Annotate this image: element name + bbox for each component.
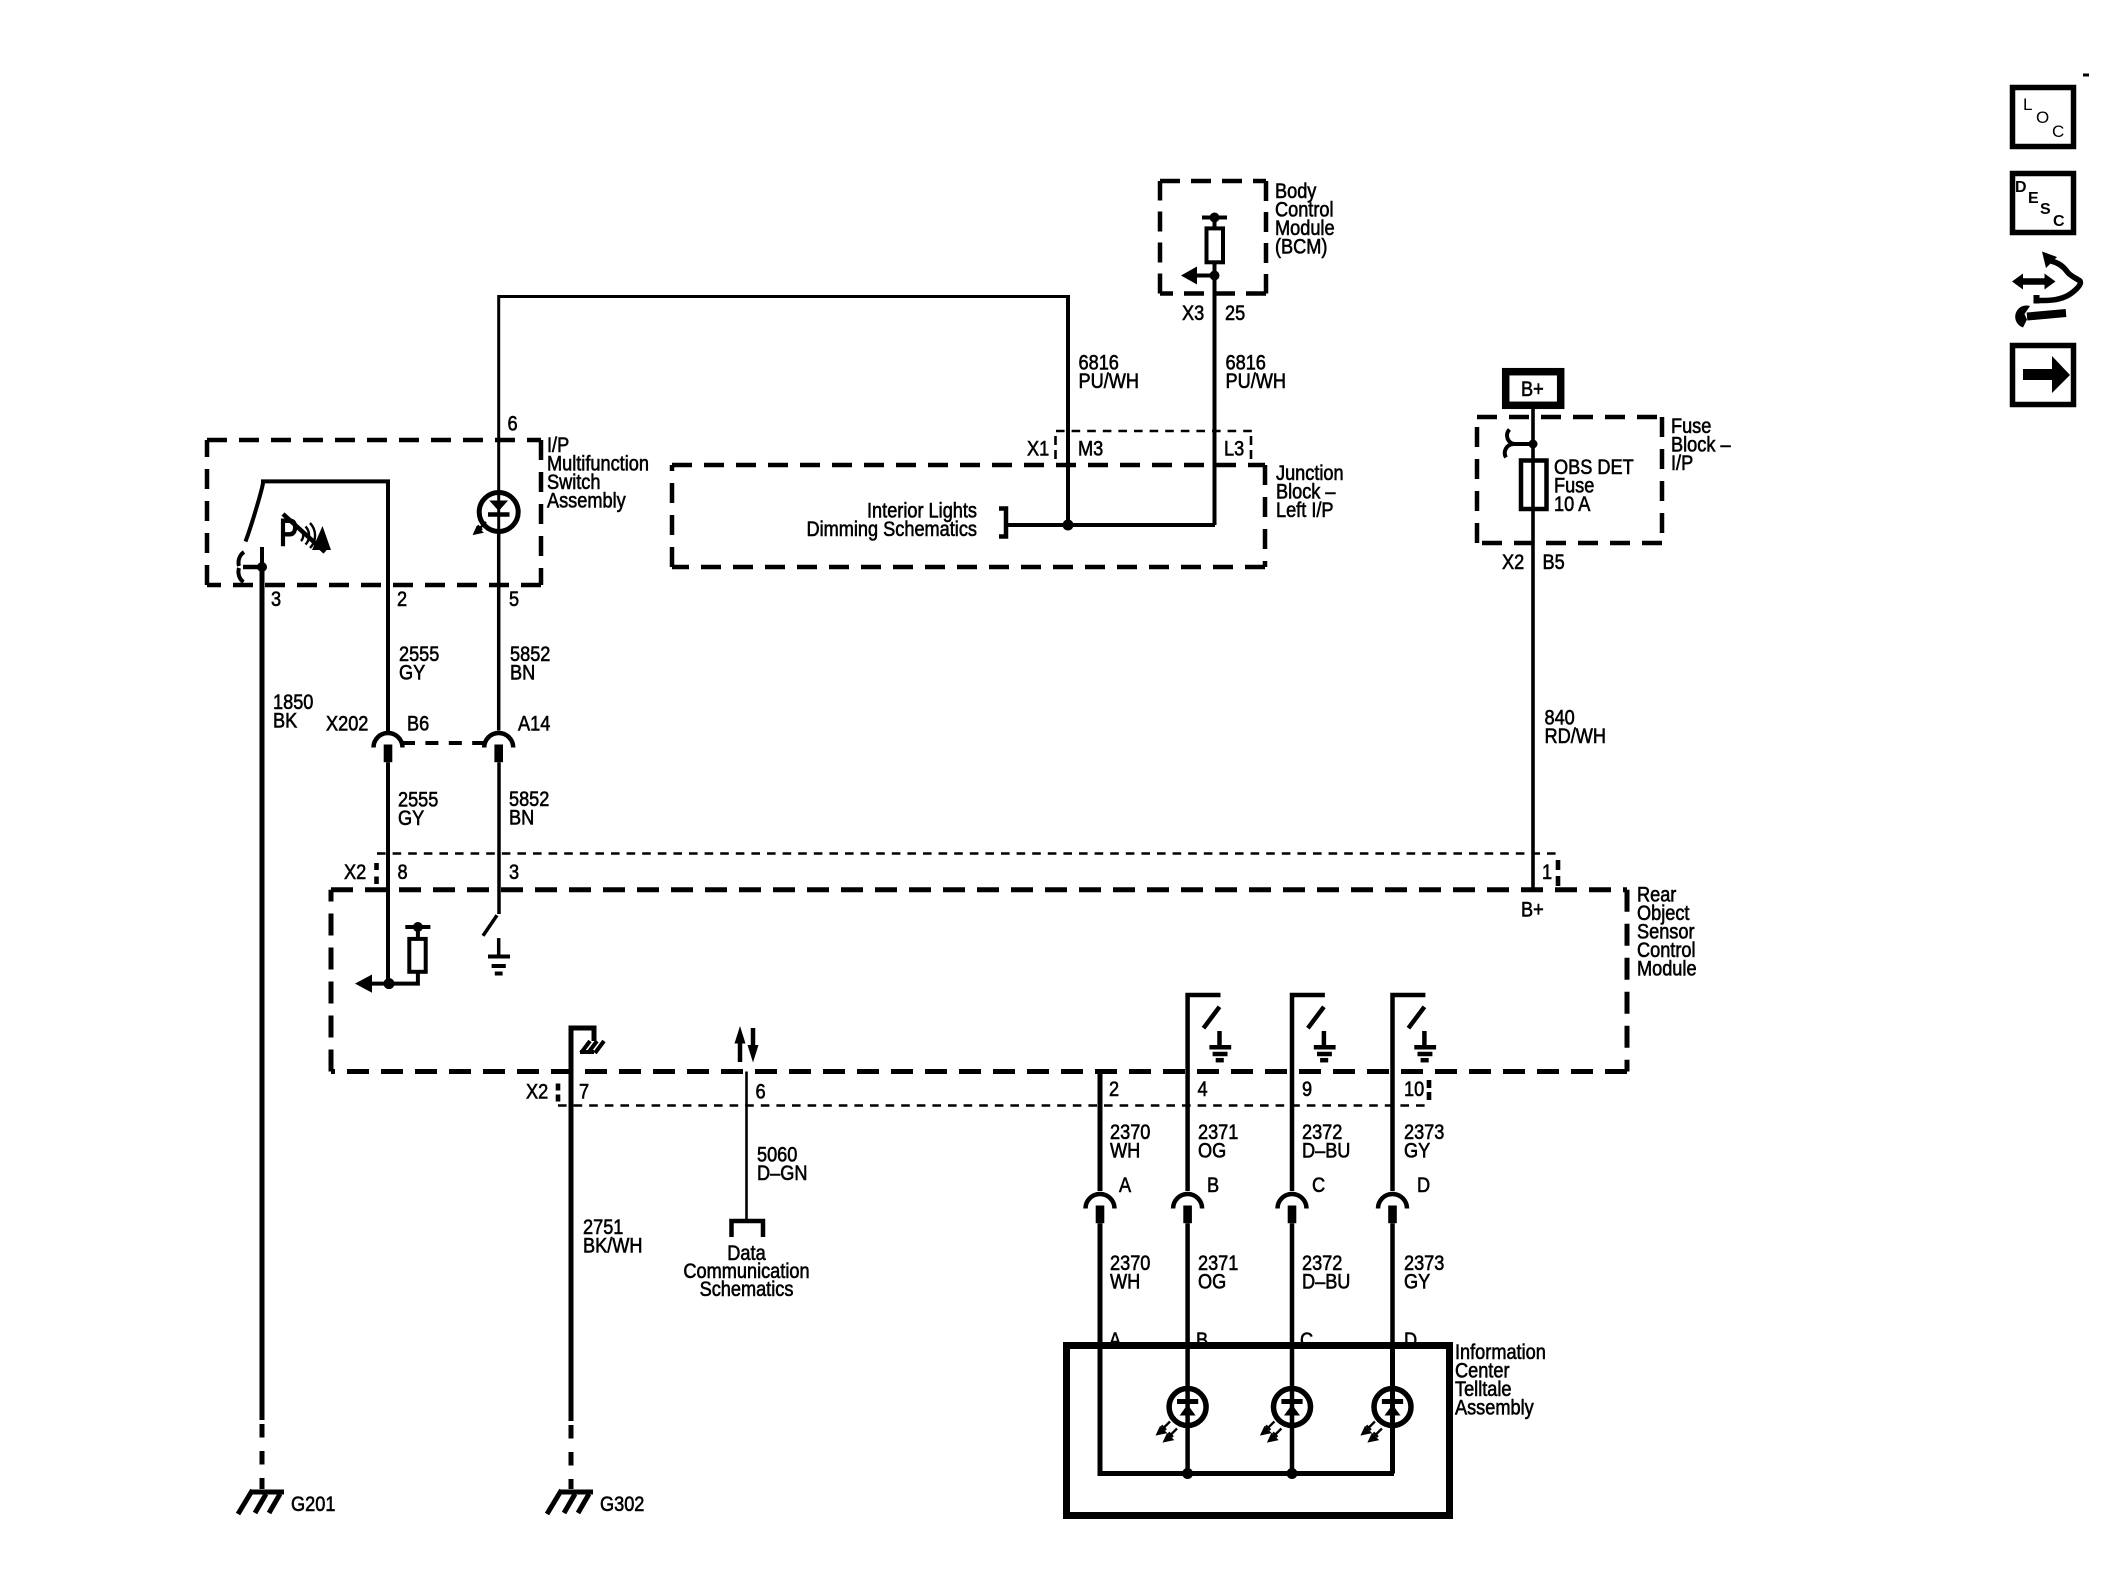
connector L3 tick <box>1250 436 1253 459</box>
connector X1 tick <box>1054 436 1057 459</box>
svg-text:G201: G201 <box>291 1493 335 1517</box>
interior lights bracket <box>999 509 1006 537</box>
svg-text:8: 8 <box>397 861 407 885</box>
LED C light arrows <box>1262 1422 1282 1442</box>
svg-text:OG: OG <box>1198 1270 1226 1294</box>
LED telltale D <box>1374 1389 1411 1426</box>
svg-text:X202: X202 <box>326 712 368 736</box>
svg-text:O: O <box>2036 108 2049 127</box>
LED telltale C <box>1290 1346 1295 1474</box>
wire: 6816 PU/WH from BCM pin 25 down to junction block L3 <box>1213 262 1217 525</box>
wire: 2372 D-BU connector C to telltale <box>1290 1223 1295 1345</box>
resistor inside BCM <box>1207 228 1224 262</box>
svg-text:Left I/P: Left I/P <box>1276 499 1334 523</box>
svg-text:E: E <box>2028 190 2039 207</box>
switch blade (park assist switch, open) <box>246 483 264 542</box>
ROS internal: transistor switch to ground C <box>1292 995 1336 1072</box>
svg-text:B6: B6 <box>407 712 429 736</box>
svg-text:C: C <box>2053 213 2065 230</box>
svg-text:PU/WH: PU/WH <box>1226 370 1287 394</box>
svg-text:B+: B+ <box>1521 898 1544 922</box>
svg-text:C: C <box>2052 122 2064 141</box>
connector X2 tick (bottom left) <box>556 1084 561 1102</box>
switch contact bar and hook <box>243 565 262 570</box>
svg-text:2: 2 <box>1109 1078 1119 1102</box>
svg-text:L: L <box>2023 95 2032 114</box>
svg-text:GY: GY <box>399 661 425 685</box>
svg-text:PU/WH: PU/WH <box>1079 370 1140 394</box>
svg-text:GY: GY <box>1404 1139 1430 1163</box>
node: ROS input junction dot <box>384 978 395 989</box>
ROS internal: T-bar node above resistor <box>405 925 430 929</box>
wire: 5060 D-GN serial data <box>745 1072 748 1220</box>
resistor inside ROS <box>409 939 425 972</box>
wire: 1850 BK from switch contact to G201 <box>260 567 265 1420</box>
svg-text:6: 6 <box>508 412 518 436</box>
svg-text:BN: BN <box>510 661 535 685</box>
LED B light arrows <box>1158 1422 1178 1442</box>
svg-text:B+: B+ <box>1521 378 1544 402</box>
node: contact dot <box>257 562 267 572</box>
svg-text:D–GN: D–GN <box>757 1162 807 1186</box>
fuse OBS DET 10A <box>1521 461 1547 510</box>
connector X202 dashed link line <box>402 741 484 745</box>
wire: 2371 OG pin 4 to connector B <box>1185 1072 1190 1192</box>
ground G302 <box>547 1490 593 1514</box>
node: BCM output junction dot <box>1210 271 1220 281</box>
svg-text:B5: B5 <box>1543 551 1565 575</box>
svg-text:2: 2 <box>397 588 407 612</box>
svg-text:3: 3 <box>271 588 281 612</box>
wire: 2373 GY pin 10 to connector D <box>1390 1072 1395 1192</box>
node: junction dot at M3 wire and interior-lights wire <box>1063 520 1074 531</box>
svg-text:9: 9 <box>1302 1078 1312 1102</box>
svg-text:D–BU: D–BU <box>1302 1270 1350 1294</box>
wire: telltale A branch down to bus <box>1100 1346 1394 1474</box>
svg-text:10: 10 <box>1404 1078 1424 1102</box>
I/P multifunction switch assembly dashed box <box>207 440 541 585</box>
wire: 2372 D-BU pin 9 to connector C <box>1290 1072 1295 1192</box>
ROS internal: switch to earth ground on pin 3 wire <box>483 915 497 935</box>
svg-text:A14: A14 <box>518 712 550 736</box>
svg-text:Dimming Schematics: Dimming Schematics <box>807 518 978 542</box>
node: bus dot B <box>1182 1468 1193 1479</box>
rear object sensor control module dashed box <box>331 890 1627 1072</box>
connector tick at pin 1 <box>1556 860 1561 886</box>
svg-text:1: 1 <box>1542 861 1552 885</box>
connector D female arc and male pin <box>1378 1194 1407 1209</box>
svg-text:7: 7 <box>579 1080 589 1104</box>
wire: top horizontal from I/P pin 6 to junction block M3 <box>499 297 1068 441</box>
svg-text:L3: L3 <box>1224 437 1244 461</box>
svg-text:GY: GY <box>398 807 424 831</box>
arrow: BCM signal output pointing left <box>1195 274 1215 278</box>
svg-text:Schematics: Schematics <box>700 1278 794 1302</box>
svg-text:X2: X2 <box>1502 551 1524 575</box>
svg-text:BK/WH: BK/WH <box>583 1234 643 1258</box>
wire: 5852 BN from connector A14 into ROS module <box>497 762 501 914</box>
node: bus dot C <box>1287 1468 1298 1479</box>
svg-text:B: B <box>1207 1174 1219 1198</box>
ROS internal: chassis ground for pin 7 <box>571 1028 594 1072</box>
svg-text:Assembly: Assembly <box>547 489 626 513</box>
wire: 5852 BN from LED to connector A14 <box>497 532 501 731</box>
connector B female arc and male pin <box>1173 1194 1202 1209</box>
switch moving contact stub <box>260 547 264 567</box>
svg-text:RD/WH: RD/WH <box>1545 725 1607 749</box>
connector B6 female arc and male pin <box>374 733 403 748</box>
svg-text:BN: BN <box>509 806 534 830</box>
svg-text:4: 4 <box>1197 1078 1207 1102</box>
LED telltale B <box>1185 1346 1190 1474</box>
body control module (BCM) dashed box <box>1160 181 1266 294</box>
wire: switch common from pivot to pin 2 corner <box>263 481 388 731</box>
svg-text:WH: WH <box>1110 1139 1140 1163</box>
ground G201 <box>238 1490 284 1514</box>
svg-text:X1: X1 <box>1027 437 1049 461</box>
wire: 840 RD/WH from B+ through fuse to ROS module <box>1531 405 1535 888</box>
wire: 2370 WH connector A to telltale <box>1098 1223 1103 1345</box>
data communication schematics bracket <box>732 1221 764 1237</box>
node: tap dot <box>1529 440 1538 449</box>
svg-text:6: 6 <box>755 1080 765 1104</box>
ROS internal: data bidirectional arrows <box>738 1041 743 1062</box>
svg-text:X2: X2 <box>526 1080 548 1104</box>
svg-text:I/P: I/P <box>1671 452 1693 476</box>
svg-text:3: 3 <box>509 861 519 885</box>
connector C female arc and male pin <box>1278 1194 1307 1209</box>
svg-text:S: S <box>2040 201 2051 218</box>
ROS internal: transistor switch to ground D <box>1393 995 1437 1072</box>
icon: connector-repair double arrow with part outline and wrench <box>2012 252 2080 328</box>
svg-text:C: C <box>1312 1174 1325 1198</box>
information center telltale assembly box <box>1067 1346 1450 1516</box>
connector A female arc and male pin <box>1086 1194 1115 1209</box>
svg-text:10 A: 10 A <box>1554 493 1591 517</box>
wire: 2751 BK/WH from chassis ground to G302 <box>569 1072 574 1422</box>
wire: 2373 GY connector D to telltale <box>1390 1223 1395 1345</box>
svg-text:D–BU: D–BU <box>1302 1139 1350 1163</box>
svg-text:X3: X3 <box>1182 302 1204 326</box>
LED indicator in switch assembly <box>497 440 500 532</box>
svg-text:WH: WH <box>1110 1270 1140 1294</box>
bus tap hook at fuse <box>1513 442 1533 446</box>
connector X2 tick (left) <box>374 863 379 884</box>
icon: forward arrow box <box>2013 346 2074 405</box>
svg-text:5: 5 <box>509 588 519 612</box>
junction block - left I/P dashed box <box>672 465 1265 567</box>
icon: park assist off (P with slash) <box>279 510 331 555</box>
svg-text:BK: BK <box>273 709 297 733</box>
fuse block - I/P dashed box <box>1477 417 1662 543</box>
svg-text:G302: G302 <box>600 1493 644 1517</box>
B+ power symbol box <box>1506 372 1561 406</box>
tiny dash top right <box>2083 74 2089 77</box>
wire: 2370 WH pin 2 to connector A <box>1098 1072 1103 1192</box>
connector tick after pin 10 <box>1427 1080 1432 1100</box>
svg-text:25: 25 <box>1225 302 1245 326</box>
wire: telltale D branch down to bus <box>1390 1346 1395 1474</box>
svg-text:GY: GY <box>1404 1270 1430 1294</box>
LED light arrows <box>475 522 487 534</box>
wire: interior lights dimming feed inside junction block <box>1006 523 1215 527</box>
icon: DESC box <box>2013 174 2074 233</box>
svg-text:A: A <box>1119 1174 1132 1198</box>
svg-text:(BCM): (BCM) <box>1275 235 1327 259</box>
wire: 2371 OG connector B to telltale <box>1185 1223 1190 1345</box>
icon: LOC box <box>2013 88 2074 147</box>
LED D light arrows <box>1362 1422 1382 1442</box>
svg-text:Assembly: Assembly <box>1455 1396 1534 1420</box>
svg-text:D: D <box>2015 179 2027 196</box>
arrow: ROS signal input pointing left <box>371 982 389 986</box>
svg-text:Module: Module <box>1637 957 1697 981</box>
svg-text:X2: X2 <box>344 861 366 885</box>
wire: 2555 GY from connector B6 to ROS module <box>386 762 390 983</box>
BCM internal T-bar with node <box>1202 216 1227 220</box>
connector X2 fine dotted line (ROS bottom) <box>558 1104 1429 1107</box>
connector A14 female arc and male pin <box>484 733 513 748</box>
connector X1 fine dotted line <box>1056 430 1253 433</box>
ROS internal: transistor switch to ground B <box>1188 995 1232 1072</box>
connector X2 fine dotted line (ROS top) <box>377 852 1558 855</box>
svg-text:M3: M3 <box>1078 437 1103 461</box>
svg-text:OG: OG <box>1198 1139 1226 1163</box>
svg-text:D: D <box>1417 1174 1430 1198</box>
